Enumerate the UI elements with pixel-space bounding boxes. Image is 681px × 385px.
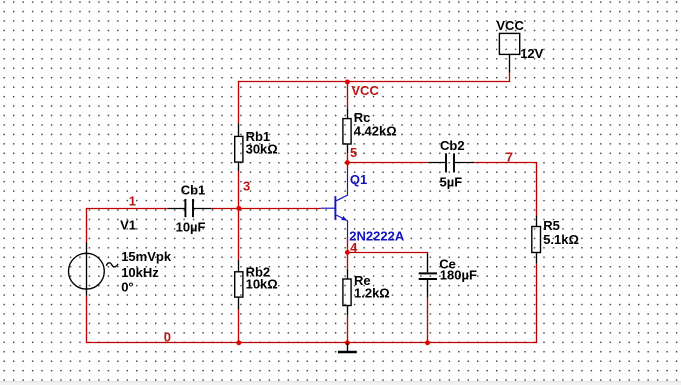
capacitor Cb1	[168, 199, 212, 217]
svg-text:3: 3	[243, 179, 250, 194]
svg-text:4: 4	[350, 240, 358, 255]
node 5	[350, 145, 357, 160]
wire Q1 collector stub	[347, 163, 349, 169]
ground	[338, 343, 357, 353]
value 0 degrees	[121, 280, 133, 295]
svg-text:4.42kΩ: 4.42kΩ	[354, 123, 397, 138]
capacitor Cb2	[428, 153, 474, 172]
wire V1 top vertical	[86, 208, 88, 243]
svg-text:0: 0	[164, 330, 171, 345]
label Rb1	[246, 129, 271, 144]
value 30kΩ	[246, 141, 278, 156]
node 0	[164, 330, 171, 345]
value 180µF	[440, 268, 477, 283]
svg-text:180µF: 180µF	[440, 268, 477, 283]
label Rb2	[246, 264, 271, 279]
label Cb2	[440, 138, 465, 153]
wire Rb2 bottom	[238, 310, 240, 344]
svg-text:12V: 12V	[520, 46, 543, 61]
junction bottom at ground	[345, 340, 350, 345]
resistor R5	[532, 215, 541, 263]
transistor Q1	[321, 169, 348, 238]
svg-text:7: 7	[506, 150, 513, 165]
capacitor Ce	[419, 254, 437, 298]
wire top bus VCC to Rb1 corner	[239, 73, 510, 124]
label V1	[120, 218, 136, 233]
svg-text:1: 1	[129, 193, 136, 208]
svg-text:Cb2: Cb2	[440, 138, 465, 153]
svg-text:R5: R5	[543, 218, 560, 233]
svg-text:Cb1: Cb1	[181, 183, 206, 198]
node 3	[243, 179, 250, 194]
junction bottom at Ce	[425, 340, 430, 345]
svg-text:VCC: VCC	[496, 18, 524, 33]
wire Ce bottom	[427, 298, 429, 343]
svg-text:10kΩ: 10kΩ	[246, 276, 278, 291]
wire Rc top	[347, 82, 349, 109]
wire node 1 horizontal V1 to Cb1	[86, 208, 168, 210]
label Rc	[354, 110, 371, 125]
svg-text:10kHz: 10kHz	[121, 265, 159, 280]
svg-text:1.2kΩ: 1.2kΩ	[354, 285, 390, 300]
label Ce	[439, 256, 456, 271]
value 10kHz	[121, 265, 159, 280]
value 4.42kΩ	[354, 123, 397, 138]
VCC source value 12V	[520, 46, 543, 61]
label Q1	[350, 172, 367, 187]
junction top VCC bus at Rc	[345, 79, 350, 84]
node VCC net label	[351, 83, 379, 98]
value 15mVpk	[121, 249, 172, 264]
svg-text:5: 5	[350, 145, 357, 160]
label Cb1	[181, 183, 206, 198]
label R5	[543, 218, 560, 233]
wire ground bus bottom	[86, 342, 537, 344]
junction bottom at Rb2	[236, 340, 241, 345]
node 4	[350, 240, 358, 255]
value 2N2222A	[349, 228, 405, 243]
wire Re bottom	[347, 315, 349, 343]
node 7	[506, 150, 513, 165]
AC source V1	[69, 243, 119, 296]
label Re	[354, 273, 371, 288]
svg-text:0°: 0°	[121, 280, 133, 295]
resistor Rc	[343, 109, 351, 153]
wire R5 bottom	[536, 264, 538, 344]
wire Rc bottom to node 5	[347, 153, 349, 163]
value 5.1kΩ	[543, 232, 579, 247]
svg-text:2N2222A: 2N2222A	[349, 228, 405, 243]
svg-text:Q1: Q1	[350, 172, 367, 187]
resistor Re	[343, 270, 351, 316]
wire V1 bottom vertical	[86, 296, 88, 343]
wire Q1 emitter to node 4	[347, 237, 349, 253]
wire Rb2 top	[238, 209, 240, 260]
wire Rb1 bottom to node 3	[238, 171, 240, 209]
value 5µF	[440, 175, 463, 190]
resistor Rb1	[235, 123, 243, 171]
svg-text:10µF: 10µF	[176, 220, 206, 235]
VCC source name label	[496, 18, 524, 33]
wire node 4 to Ce	[348, 253, 428, 254]
VCC power source box	[499, 33, 519, 72]
svg-text:15mVpk: 15mVpk	[121, 249, 172, 264]
resistor Rb2	[235, 260, 243, 310]
wire Cb2 to node 7 corner	[474, 163, 537, 216]
junction node 3	[236, 206, 241, 211]
wire node 5 to Cb2	[348, 162, 429, 164]
svg-text:5µF: 5µF	[440, 175, 463, 190]
junction node 5	[345, 160, 350, 165]
value 10kΩ	[246, 276, 278, 291]
value 1.2kΩ	[354, 285, 390, 300]
value 10µF	[176, 220, 206, 235]
junction node 4	[345, 250, 350, 255]
svg-text:V1: V1	[120, 218, 136, 233]
svg-text:5.1kΩ: 5.1kΩ	[543, 232, 579, 247]
wire Cb1 to node 3 to Q1 base	[212, 208, 321, 210]
node 1	[129, 193, 136, 208]
svg-text:30kΩ: 30kΩ	[246, 141, 278, 156]
svg-text:VCC: VCC	[351, 83, 379, 98]
bottom window edge strip	[0, 382, 681, 385]
wire Re top	[347, 253, 349, 270]
